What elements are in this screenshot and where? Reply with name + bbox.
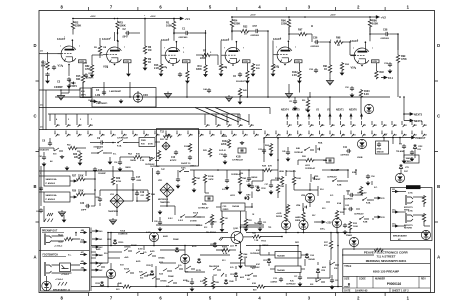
wire S34 drop — [329, 262, 331, 265]
resistor R108 — [286, 204, 289, 213]
svg-text:R52: R52 — [67, 145, 70, 147]
ground C28 — [158, 227, 163, 232]
stub — [45, 89, 47, 91]
svg-text:S15: S15 — [322, 208, 325, 210]
wire bottom bus 1 — [108, 232, 228, 234]
capacitor C33 .022R25 — [279, 277, 283, 282]
wire K1A to R19 box — [127, 142, 139, 144]
resistor R17 820 — [251, 63, 254, 72]
net +V2 arrow — [374, 16, 379, 19]
svg-text:K2B: K2B — [337, 185, 342, 187]
svg-text:S23: S23 — [116, 289, 119, 291]
svg-text:A2/D: A2/D — [150, 250, 155, 253]
svg-text:S34: S34 — [334, 267, 337, 270]
wire bottom bus right — [246, 232, 430, 234]
svg-text:TITLE: TITLE — [344, 265, 351, 268]
wire bl7 — [143, 246, 145, 251]
diode CR38 — [100, 281, 103, 287]
capacitor C9b TRI-AMP — [402, 144, 406, 149]
wire rm4 — [317, 190, 319, 196]
wire +V1 supply rail — [73, 18, 178, 20]
svg-text:12VRELAY: 12VRELAY — [232, 159, 244, 162]
svg-text:C19: C19 — [140, 192, 145, 194]
junction dot — [369, 16, 371, 18]
wire left col b — [43, 206, 45, 222]
ground C59 — [388, 69, 393, 74]
border zone letters right — [437, 43, 440, 260]
wire R29 to VR3 — [116, 184, 118, 194]
svg-text:7: 7 — [124, 47, 125, 49]
svg-text:CR3: CR3 — [246, 195, 251, 197]
junction dot — [263, 137, 265, 139]
wire stage interlink v — [267, 44, 269, 97]
resistor R60 jack — [64, 237, 73, 240]
svg-text:A7/D: A7/D — [159, 261, 164, 264]
label bias V2A — [183, 60, 191, 63]
wire R4 to V2B plate — [231, 27, 233, 41]
label EFFECTS header — [406, 185, 421, 189]
wire C8 top — [49, 138, 51, 143]
wire S3C down — [177, 170, 179, 177]
wire R27 to node — [84, 178, 95, 180]
wire stage4 drop — [246, 83, 248, 97]
svg-text:220K: 220K — [78, 191, 84, 193]
svg-text:P. ANGLE: P. ANGLE — [46, 182, 56, 185]
resistor R33 100K — [348, 221, 351, 230]
svg-text:LM13: LM13 — [190, 166, 196, 168]
ground C23 — [176, 184, 181, 189]
svg-text:A8: A8 — [50, 160, 52, 163]
svg-text:Q101: Q101 — [233, 228, 239, 230]
net +V1 arrow — [178, 17, 183, 20]
svg-text:1N4148: 1N4148 — [308, 258, 315, 261]
ground C45 — [286, 157, 291, 162]
wire fs links — [52, 265, 81, 273]
jack footswitch J2 — [45, 262, 52, 276]
box divider footswitch — [39, 249, 89, 251]
wire to K1C — [91, 152, 98, 154]
wire rm1 — [317, 186, 319, 190]
svg-text:S17: S17 — [99, 255, 102, 257]
svg-text:WIRE: WIRE — [295, 220, 301, 222]
net J4E arrow — [92, 262, 99, 264]
wire V5B grid vertical — [272, 41, 274, 56]
svg-text:4MP1: 4MP1 — [81, 94, 86, 97]
svg-text:C11: C11 — [343, 147, 348, 149]
arrow net 3 — [308, 113, 311, 120]
svg-text:B: B — [437, 184, 440, 189]
svg-text:K4A: K4A — [323, 159, 328, 162]
svg-text:TR1: TR1 — [268, 227, 271, 229]
wire V5A cathode — [375, 63, 377, 70]
svg-text:S25: S25 — [166, 286, 169, 288]
wire pot1 feed — [43, 166, 45, 176]
junction dot — [144, 18, 146, 20]
chassis mark /77 bottom — [58, 282, 67, 285]
svg-text:1K: 1K — [244, 33, 247, 36]
capacitor C20 29PF — [85, 204, 90, 208]
wire R1 to V2A plate — [173, 29, 175, 41]
svg-text:N.O.: N.O. — [178, 265, 182, 267]
wire tone vertical a — [94, 174, 96, 194]
svg-text:3.3U: 3.3U — [372, 61, 377, 63]
wire R104-R106 — [285, 196, 287, 204]
wire V1B plate up — [114, 32, 116, 41]
wire R30 to node — [84, 193, 95, 195]
wire R5 bottom — [99, 53, 101, 58]
junction right tone — [277, 159, 279, 161]
wire k3a up — [371, 181, 373, 185]
junction rail/R97 — [304, 16, 306, 18]
relay K2A 12VRELAY — [205, 196, 213, 201]
capacitor C59 — [388, 62, 392, 67]
wire vertical tone divider — [152, 168, 154, 222]
wire R26 to K4A — [313, 159, 326, 161]
svg-text:R102: R102 — [292, 72, 298, 74]
svg-text:S13: S13 — [222, 260, 225, 262]
diode CR2 — [413, 144, 416, 150]
svg-text:CR10: CR10 — [261, 188, 266, 190]
capacitor C28 — [158, 220, 162, 225]
wire to DS3 — [303, 208, 305, 212]
ground R92 — [340, 71, 345, 76]
svg-text:8: 8 — [62, 66, 63, 68]
svg-text:K3A: K3A — [366, 202, 371, 205]
resistor R5 1M — [98, 45, 101, 54]
wire R42 top — [239, 170, 241, 176]
svg-text:EFFECTS: EFFECTS — [406, 187, 417, 189]
resistor R20 22K — [78, 152, 81, 161]
capacitor C27 — [269, 183, 273, 188]
svg-text:S28: S28 — [310, 284, 313, 286]
svg-text:.022R25: .022R25 — [270, 282, 277, 284]
junction dot — [288, 16, 290, 18]
svg-text:.022P400: .022P400 — [310, 45, 320, 48]
net F3.1 arrow — [381, 76, 387, 79]
switch S27 — [248, 273, 257, 276]
wire R19 box out — [155, 141, 160, 143]
wire left link — [91, 245, 108, 247]
svg-text:.047P400: .047P400 — [340, 154, 350, 157]
wire pot1 top link — [85, 171, 87, 176]
wire VR5 bottom — [303, 189, 318, 191]
svg-text:C35: C35 — [335, 280, 338, 282]
wire to VR3 — [110, 200, 117, 202]
svg-text:RETURN: RETURN — [404, 228, 413, 230]
switch S24 — [142, 272, 151, 275]
wire bm3 — [160, 262, 176, 264]
wire R90 top — [307, 97, 309, 99]
resistor R96 220K — [287, 19, 290, 28]
wire CR40 top — [225, 274, 227, 277]
wire bl3 — [91, 269, 97, 271]
pot R102 2.2K — [298, 70, 301, 79]
svg-text:R11B: R11B — [208, 176, 214, 178]
wire R104 down — [285, 184, 287, 196]
svg-text:D: D — [437, 43, 440, 48]
svg-text:3.3U: 3.3U — [243, 61, 248, 63]
capacitor C19 .001 — [135, 191, 139, 196]
ground C36 — [118, 167, 123, 172]
svg-text:A: A — [437, 255, 440, 260]
svg-text:C41: C41 — [39, 155, 42, 158]
wire eff res a down — [423, 203, 425, 207]
wire VR3 down — [116, 208, 118, 216]
wire long bus E — [264, 137, 409, 139]
ground C37 — [298, 282, 303, 287]
wire t26 drop — [248, 170, 250, 176]
diode CR5 — [213, 242, 216, 248]
svg-text:PALEDRSE: PALEDRSE — [209, 265, 220, 268]
wire junction to R91 — [329, 42, 331, 64]
capacitor C45 — [286, 150, 290, 155]
wire CR2 down — [414, 150, 416, 158]
svg-text:D: D — [33, 43, 36, 48]
ground R11 — [203, 73, 208, 78]
relay K1B 12VRELAY — [238, 148, 246, 153]
switch S11A — [193, 215, 201, 218]
wire V2A grid — [160, 55, 162, 63]
wire left S30 — [39, 147, 54, 149]
switch K1A — [118, 140, 127, 143]
ground C27 — [269, 190, 274, 195]
svg-text:19-MAY-95: 19-MAY-95 — [355, 289, 368, 292]
wire hbus left y90 — [39, 89, 80, 91]
capacitor C2 .0047 — [125, 31, 130, 35]
svg-text:12VRELAY: 12VRELAY — [354, 213, 364, 216]
wire to pot box — [79, 88, 81, 90]
wire gnd left stub — [60, 90, 62, 94]
wire K2B drop — [347, 170, 349, 178]
svg-text:S2A: S2A — [159, 273, 163, 276]
triode V2B 12AX7 — [222, 41, 240, 64]
svg-text:R10A: R10A — [184, 145, 190, 148]
resistor R15 39K — [81, 74, 84, 83]
svg-text:7: 7 — [295, 47, 296, 49]
wire bm11 — [108, 251, 122, 253]
svg-text:PM4M: PM4M — [131, 244, 137, 247]
wire CR11 top — [268, 252, 270, 255]
svg-text:C28: C28 — [154, 221, 157, 223]
wire eff in b — [398, 211, 406, 213]
box fs contact group — [60, 263, 71, 272]
svg-text:S33: S33 — [185, 272, 188, 274]
wire R99 down — [397, 62, 399, 78]
ground R82 — [90, 73, 95, 78]
wire vertical bus left — [90, 228, 92, 292]
resistor R3 100K — [116, 21, 119, 30]
wire to R26 — [298, 159, 305, 161]
wire long bus C — [48, 113, 240, 115]
svg-text:R103: R103 — [364, 91, 370, 93]
junction plate top — [236, 41, 238, 43]
svg-text:TRI-AMP: TRI-AMP — [396, 150, 405, 153]
svg-text:J47: J47 — [81, 251, 84, 254]
wire C20 link — [91, 205, 95, 207]
svg-text:S.N.2: S.N.2 — [168, 218, 173, 220]
svg-text:C45: C45 — [282, 150, 285, 153]
wire row above bottom — [156, 224, 200, 226]
svg-text:C31: C31 — [263, 222, 266, 224]
svg-text:SAM501SA: SAM501SA — [46, 178, 57, 181]
svg-text:R98: R98 — [336, 37, 341, 40]
box V1B cathode network — [92, 88, 156, 108]
wire bus C drop2 — [239, 114, 241, 121]
ground C29 — [247, 183, 252, 188]
switch K1C — [98, 150, 107, 153]
svg-text:CODE: CODE — [359, 279, 366, 281]
ground K1B — [240, 141, 244, 145]
switch CR7 marks — [213, 268, 224, 277]
wire into box — [83, 96, 92, 98]
wire V2B cathode — [246, 63, 248, 70]
svg-text:A2/D: A2/D — [136, 260, 141, 263]
svg-text:39K: 39K — [76, 78, 81, 81]
svg-text:7: 7 — [224, 48, 225, 50]
ground V1A cathode — [67, 84, 72, 89]
svg-text:470K: 470K — [401, 58, 407, 61]
capacitor C34 — [190, 280, 194, 285]
wire CR3 down — [251, 203, 253, 207]
wire Q101 collector up — [240, 227, 242, 229]
svg-text:220K: 220K — [281, 22, 287, 26]
svg-text:R102: R102 — [222, 141, 228, 143]
border zone ticks top — [88, 7, 385, 11]
wire gnd above box — [63, 215, 65, 218]
triode V1B 12AX7 — [103, 41, 121, 64]
switch cluster CR32A — [124, 249, 156, 257]
ground R44 — [238, 264, 243, 269]
wire vertical K3 area — [343, 195, 345, 215]
svg-text:220K: 220K — [200, 57, 206, 60]
svg-text:12VRELAY: 12VRELAY — [117, 137, 129, 140]
svg-text:NEXT6: NEXT6 — [349, 109, 357, 112]
wire busE drop c — [399, 138, 401, 145]
wire R5 top — [99, 38, 101, 45]
wire R105 down — [293, 184, 295, 190]
wire R32 to C57 — [248, 30, 254, 32]
border zone letters left — [33, 43, 36, 260]
junction dot — [349, 41, 351, 43]
net J31 arrow — [374, 197, 381, 199]
net J52 arrow — [392, 211, 398, 213]
svg-text:+320V: +320V — [330, 15, 336, 17]
wire R6-R9 — [144, 57, 146, 66]
wire V1B cathode — [128, 63, 130, 72]
wire CR39 top — [151, 264, 153, 267]
svg-text:C20: C20 — [80, 203, 85, 205]
svg-text:4.7K: 4.7K — [223, 252, 228, 255]
wire R28 out — [271, 169, 278, 171]
switch K3A — [363, 198, 372, 201]
ground C9 area — [108, 160, 113, 165]
wire long bus B — [39, 107, 270, 109]
resistor R16 2.2K — [159, 63, 162, 72]
net J48 arrow — [80, 262, 87, 264]
svg-text:PM4M: PM4M — [168, 275, 174, 278]
resistor R18 3.3K — [133, 155, 142, 158]
junction dot — [361, 65, 363, 67]
svg-text:47K: 47K — [324, 244, 328, 247]
svg-text:22K: 22K — [74, 157, 79, 159]
resistor R102 220K — [227, 139, 230, 148]
wire K4B drop — [149, 157, 151, 161]
wire V5A grid lead2 — [350, 54, 356, 56]
switch S2A — [163, 269, 172, 272]
wire S11A to S29 — [190, 216, 205, 218]
svg-text:2: 2 — [40, 189, 41, 191]
svg-text:N.O.: N.O. — [230, 267, 234, 269]
wire C37 top — [299, 273, 301, 276]
svg-text:P. ANGLE: P. ANGLE — [46, 198, 56, 201]
resistor R2 220K — [71, 21, 74, 30]
junction rail t2 — [114, 18, 116, 20]
resistor R26 — [305, 158, 314, 161]
wire VR1 bottom bus — [160, 205, 175, 207]
svg-text:22OHM: 22OHM — [196, 225, 203, 227]
wire C27 top — [270, 180, 272, 183]
slider pot P.ANGLE 1 — [44, 176, 70, 186]
resistor R103 8.2K — [359, 89, 362, 98]
svg-text:FOOTSWITCH: FOOTSWITCH — [43, 255, 59, 257]
svg-text:7: 7 — [228, 39, 229, 41]
wire C9 to K1A — [104, 142, 116, 144]
net J33 arrow — [374, 216, 381, 218]
wire to R18 — [120, 156, 133, 158]
wire junction bias — [83, 62, 87, 64]
wire R1 top to rail — [173, 19, 175, 21]
wire plate to R97 — [289, 33, 298, 35]
wire V1A cathode down — [68, 65, 70, 77]
wire DS6 down — [353, 247, 355, 250]
svg-text:D-TA: D-TA — [408, 210, 413, 213]
ground mid1 — [164, 92, 171, 99]
wire R2 to plate — [72, 29, 74, 35]
switch S12 — [205, 221, 214, 224]
ground VR1 — [158, 210, 163, 215]
wire R96 gnd stub — [288, 84, 290, 93]
capacitor C14 input — [52, 65, 56, 70]
wire C57 out right — [259, 30, 268, 32]
svg-text:N.C.: N.C. — [252, 268, 256, 270]
switch S3/C — [180, 169, 189, 172]
svg-text:R105: R105 — [222, 247, 228, 249]
wire border to pot1 — [39, 175, 44, 177]
wire bl2 — [91, 257, 96, 259]
junction C22 — [263, 152, 265, 154]
wire stub v5b — [309, 92, 311, 97]
svg-text:8: 8 — [166, 68, 167, 70]
ground C26 — [225, 186, 230, 191]
wire row above bottom b — [240, 224, 264, 226]
svg-text:8.2K: 8.2K — [364, 94, 369, 96]
svg-text:29PF: 29PF — [81, 210, 87, 212]
wire V2A grid vertical — [160, 41, 162, 56]
svg-text:CR40: CR40 — [229, 280, 234, 283]
wire vertical bottom left — [107, 233, 109, 264]
wire bus C drop — [49, 114, 51, 121]
wire input from border — [39, 53, 48, 55]
svg-text:.022P400: .022P400 — [380, 37, 390, 40]
capacitor C6 bypass — [238, 72, 242, 77]
wire busE drop b — [392, 138, 394, 145]
junction rail/R6 — [144, 18, 146, 20]
wire R86 to plate — [369, 27, 371, 33]
wire R44 down — [240, 260, 242, 264]
title vline 3 — [418, 276, 420, 288]
junction C2 node — [117, 32, 119, 34]
wire bl1 — [91, 251, 96, 253]
